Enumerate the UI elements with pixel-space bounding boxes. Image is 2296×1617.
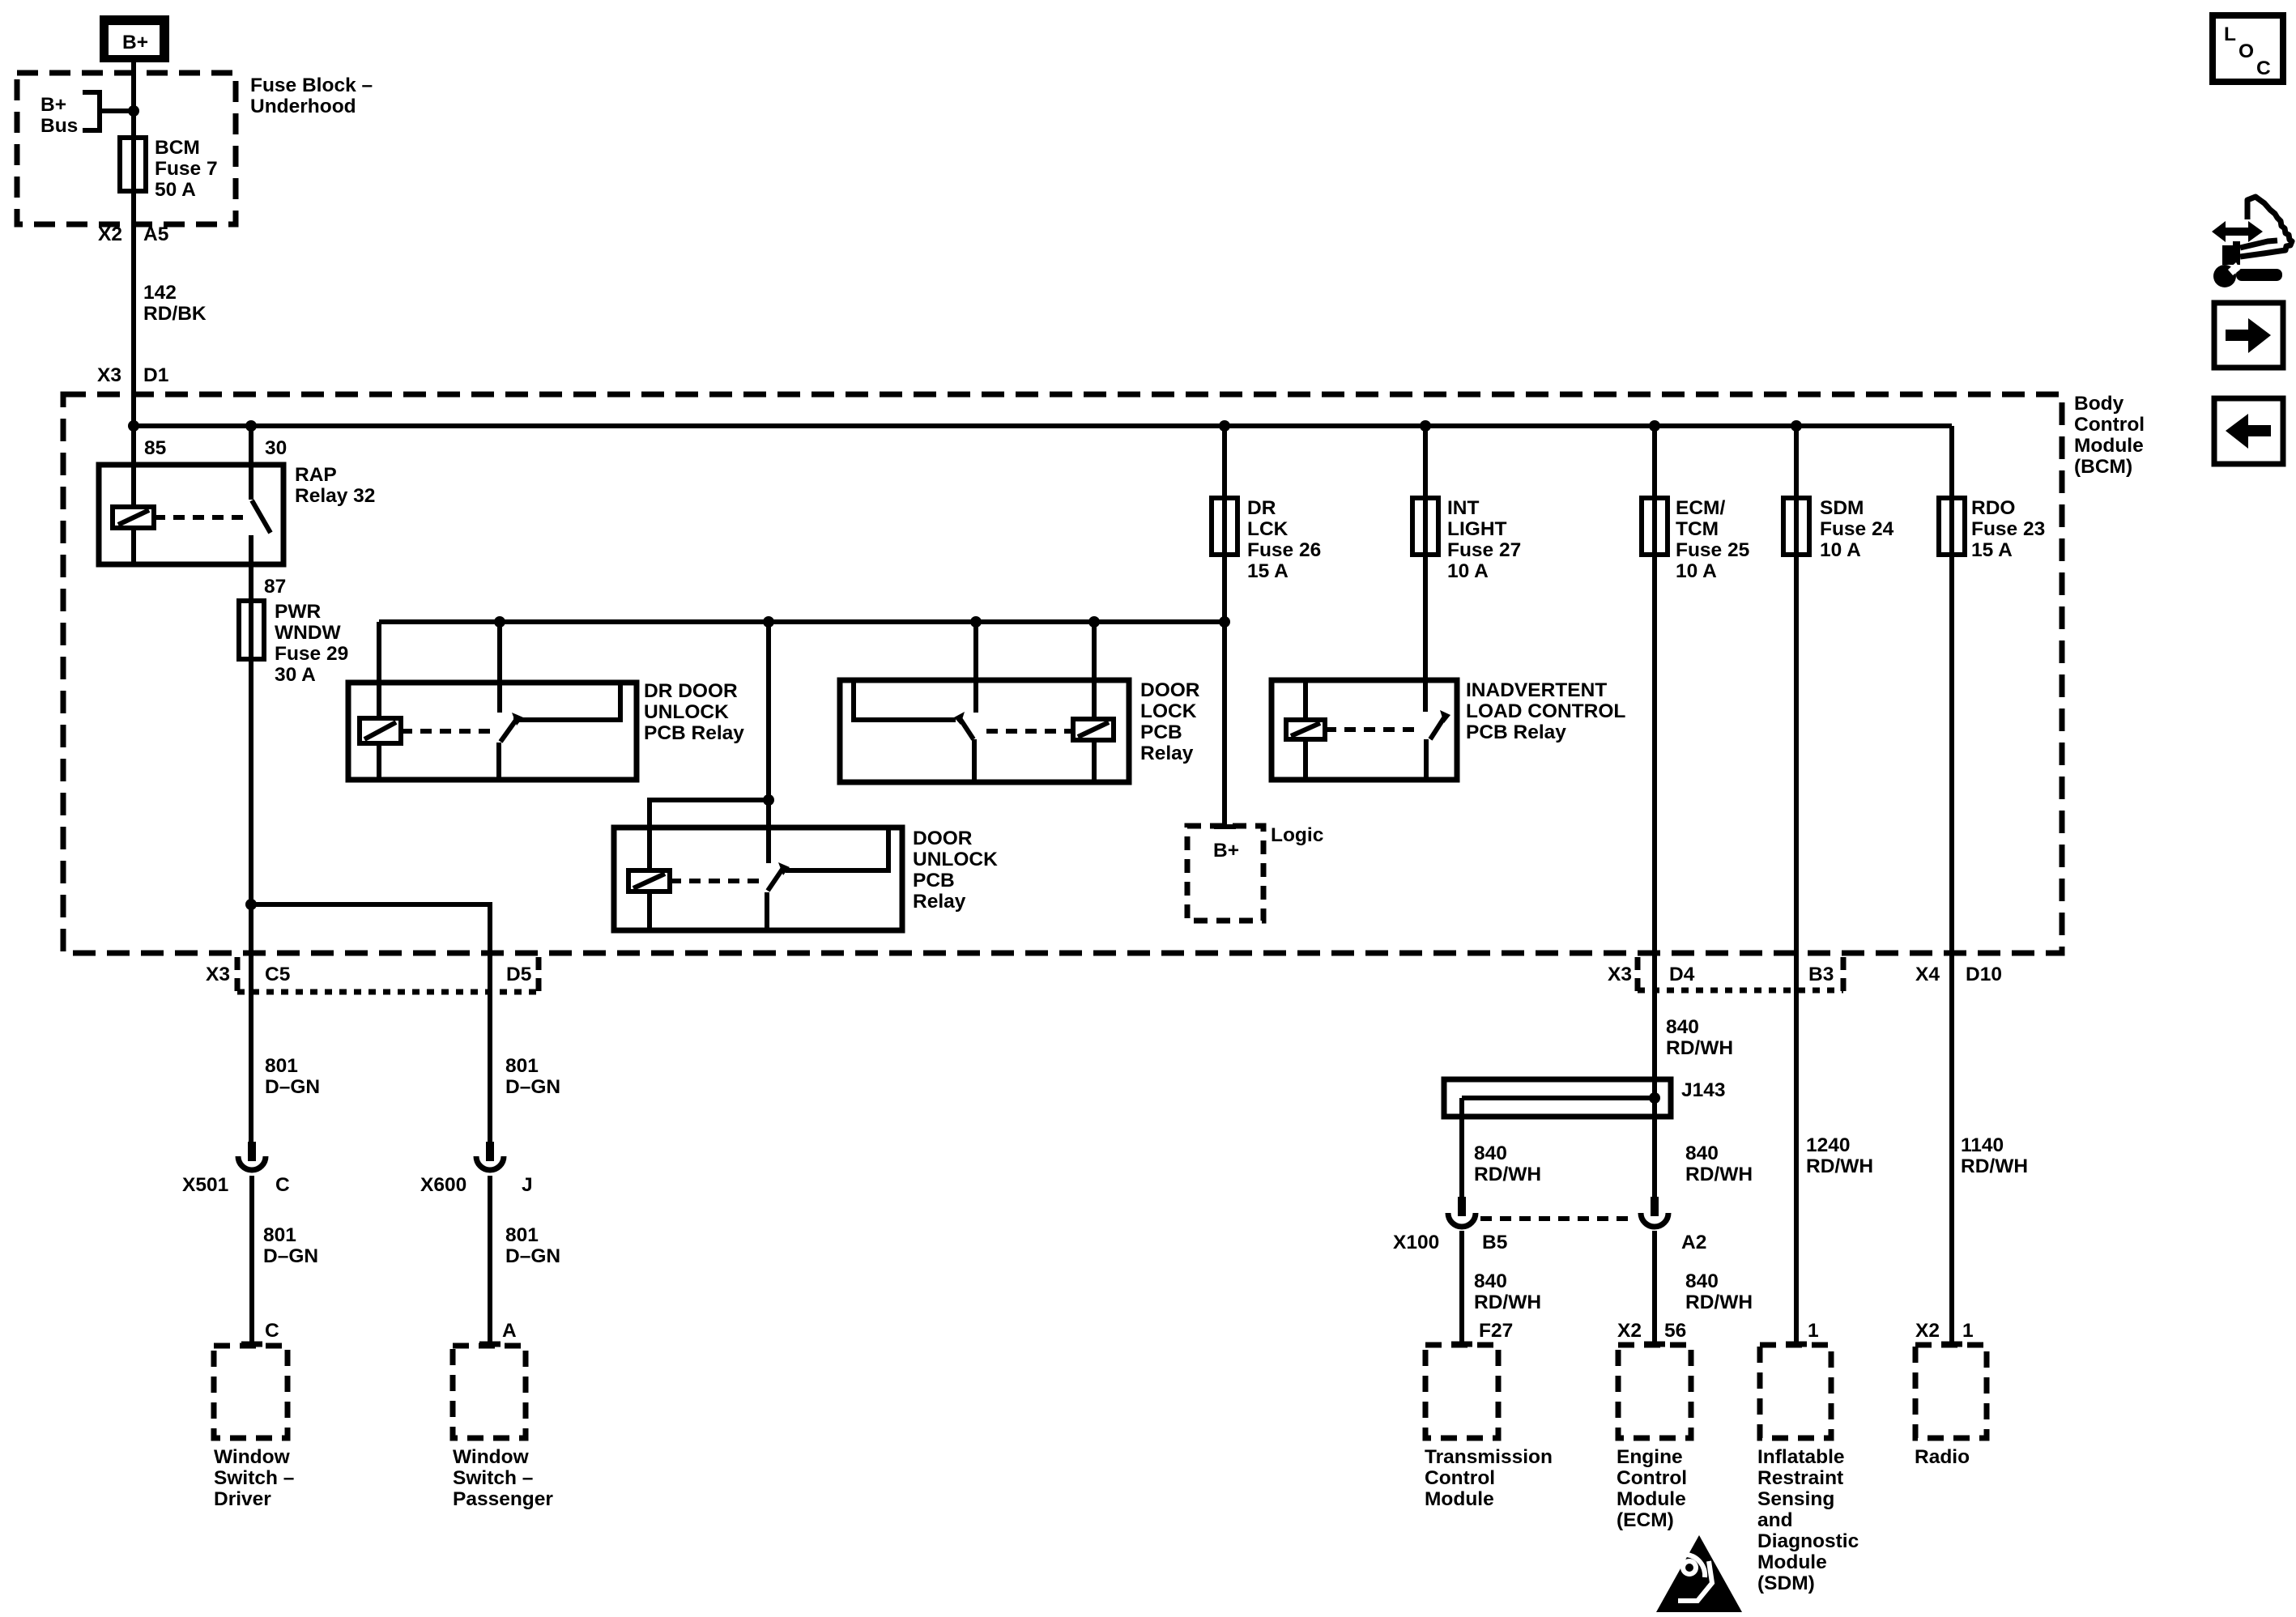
svg-text:RD/WH: RD/WH — [1474, 1291, 1541, 1313]
svg-text:Relay 32: Relay 32 — [295, 485, 375, 507]
svg-text:1140: 1140 — [1961, 1134, 2004, 1156]
svg-text:15 A: 15 A — [1247, 560, 1289, 582]
svg-text:TCM: TCM — [1676, 518, 1719, 540]
svg-text:SDM: SDM — [1820, 497, 1864, 519]
svg-text:Module: Module — [1617, 1488, 1686, 1510]
svg-text:X3: X3 — [206, 964, 230, 985]
svg-text:WNDW: WNDW — [275, 622, 342, 644]
svg-text:LCK: LCK — [1247, 518, 1289, 540]
svg-text:Body: Body — [2074, 393, 2124, 415]
svg-text:D5: D5 — [506, 964, 531, 985]
svg-text:Fuse 26: Fuse 26 — [1247, 539, 1321, 561]
svg-text:RD/WH: RD/WH — [1685, 1291, 1753, 1313]
svg-text:C: C — [275, 1174, 290, 1196]
svg-text:840: 840 — [1685, 1143, 1719, 1164]
svg-text:B+: B+ — [40, 94, 66, 116]
svg-text:Module: Module — [1425, 1488, 1494, 1510]
svg-text:Fuse 23: Fuse 23 — [1971, 518, 2045, 540]
svg-text:801: 801 — [263, 1224, 296, 1246]
svg-text:X501: X501 — [182, 1174, 228, 1196]
svg-text:C: C — [265, 1320, 279, 1342]
svg-text:Switch –: Switch – — [453, 1467, 533, 1489]
svg-text:87: 87 — [264, 576, 286, 598]
svg-text:B5: B5 — [1482, 1232, 1507, 1253]
svg-text:Driver: Driver — [214, 1488, 271, 1510]
svg-text:801: 801 — [505, 1224, 539, 1246]
svg-text:Switch –: Switch – — [214, 1467, 294, 1489]
svg-text:J: J — [522, 1174, 533, 1196]
svg-text:Logic: Logic — [1271, 824, 1323, 846]
svg-text:RD/WH: RD/WH — [1685, 1164, 1753, 1185]
svg-text:RDO: RDO — [1971, 497, 2015, 519]
svg-text:C5: C5 — [265, 964, 290, 985]
svg-text:Control: Control — [2074, 414, 2145, 436]
svg-text:UNLOCK: UNLOCK — [644, 701, 729, 723]
svg-text:D1: D1 — [143, 364, 168, 386]
svg-text:30 A: 30 A — [275, 664, 316, 686]
svg-text:A: A — [502, 1320, 517, 1342]
svg-text:B+: B+ — [1213, 840, 1239, 862]
svg-text:D–GN: D–GN — [265, 1076, 320, 1098]
svg-text:PCB: PCB — [1140, 721, 1182, 743]
svg-text:RD/WH: RD/WH — [1666, 1037, 1733, 1059]
svg-text:PCB Relay: PCB Relay — [644, 722, 744, 744]
svg-text:15 A: 15 A — [1971, 539, 2013, 561]
svg-text:Fuse 25: Fuse 25 — [1676, 539, 1749, 561]
svg-text:PCB Relay: PCB Relay — [1466, 721, 1566, 743]
svg-text:56: 56 — [1664, 1320, 1686, 1342]
svg-text:L: L — [2224, 23, 2236, 45]
svg-text:X100: X100 — [1393, 1232, 1439, 1253]
svg-text:Module: Module — [2074, 435, 2144, 457]
svg-text:ECM/: ECM/ — [1676, 497, 1725, 519]
svg-text:LOAD CONTROL: LOAD CONTROL — [1466, 700, 1625, 722]
svg-text:RD/WH: RD/WH — [1961, 1155, 2028, 1177]
svg-text:Passenger: Passenger — [453, 1488, 553, 1510]
svg-text:LIGHT: LIGHT — [1447, 518, 1507, 540]
svg-text:DR: DR — [1247, 497, 1276, 519]
svg-text:PWR: PWR — [275, 601, 321, 623]
svg-text:801: 801 — [265, 1055, 298, 1077]
svg-text:840: 840 — [1474, 1143, 1507, 1164]
svg-text:Control: Control — [1617, 1467, 1687, 1489]
svg-text:(BCM): (BCM) — [2074, 456, 2132, 478]
svg-text:INT: INT — [1447, 497, 1480, 519]
svg-text:Diagnostic: Diagnostic — [1757, 1530, 1859, 1552]
svg-text:Fuse 27: Fuse 27 — [1447, 539, 1521, 561]
svg-text:840: 840 — [1474, 1270, 1507, 1292]
svg-text:30: 30 — [265, 437, 287, 459]
svg-text:X2: X2 — [98, 223, 122, 245]
svg-text:X3: X3 — [97, 364, 121, 386]
svg-text:(SDM): (SDM) — [1757, 1572, 1815, 1594]
svg-text:Engine: Engine — [1617, 1446, 1683, 1468]
svg-text:Inflatable: Inflatable — [1757, 1446, 1845, 1468]
svg-text:Fuse 24: Fuse 24 — [1820, 518, 1894, 540]
svg-text:840: 840 — [1666, 1016, 1699, 1038]
svg-text:D10: D10 — [1966, 964, 2002, 985]
svg-text:10 A: 10 A — [1676, 560, 1717, 582]
svg-text:142: 142 — [143, 282, 177, 304]
svg-text:Transmission: Transmission — [1425, 1446, 1553, 1468]
svg-text:85: 85 — [144, 437, 166, 459]
svg-text:Window: Window — [214, 1446, 291, 1468]
svg-text:C: C — [2256, 57, 2271, 79]
svg-text:Fuse Block –: Fuse Block – — [250, 74, 373, 96]
svg-text:(ECM): (ECM) — [1617, 1509, 1674, 1531]
svg-text:D–GN: D–GN — [263, 1245, 318, 1267]
svg-text:1: 1 — [1808, 1320, 1819, 1342]
svg-text:A5: A5 — [143, 223, 168, 245]
svg-text:Relay: Relay — [913, 891, 966, 913]
svg-text:B+: B+ — [122, 32, 148, 53]
svg-text:801: 801 — [505, 1055, 539, 1077]
svg-text:RD/WH: RD/WH — [1806, 1155, 1873, 1177]
svg-text:PCB: PCB — [913, 870, 955, 891]
svg-text:D4: D4 — [1669, 964, 1695, 985]
svg-text:DR DOOR: DR DOOR — [644, 680, 738, 702]
svg-text:DOOR: DOOR — [913, 828, 973, 849]
svg-text:A2: A2 — [1681, 1232, 1706, 1253]
svg-text:1: 1 — [1962, 1320, 1974, 1342]
svg-text:Restraint: Restraint — [1757, 1467, 1843, 1489]
svg-text:Underhood: Underhood — [250, 96, 356, 117]
svg-text:10 A: 10 A — [1820, 539, 1861, 561]
svg-text:RAP: RAP — [295, 464, 337, 486]
svg-text:DOOR: DOOR — [1140, 679, 1200, 701]
svg-text:X2: X2 — [1915, 1320, 1940, 1342]
svg-text:RD/WH: RD/WH — [1474, 1164, 1541, 1185]
svg-text:D–GN: D–GN — [505, 1076, 560, 1098]
svg-text:O: O — [2238, 40, 2254, 62]
svg-text:UNLOCK: UNLOCK — [913, 849, 998, 870]
svg-text:F27: F27 — [1479, 1320, 1513, 1342]
svg-text:RD/BK: RD/BK — [143, 303, 207, 325]
svg-text:1240: 1240 — [1806, 1134, 1851, 1156]
svg-text:50 A: 50 A — [155, 179, 196, 201]
svg-text:INADVERTENT: INADVERTENT — [1466, 679, 1607, 701]
svg-text:Window: Window — [453, 1446, 530, 1468]
svg-text:X2: X2 — [1617, 1320, 1642, 1342]
svg-text:Fuse 29: Fuse 29 — [275, 643, 348, 665]
svg-text:X600: X600 — [420, 1174, 466, 1196]
svg-text:Fuse 7: Fuse 7 — [155, 158, 218, 180]
svg-text:D–GN: D–GN — [505, 1245, 560, 1267]
svg-text:LOCK: LOCK — [1140, 700, 1197, 722]
svg-text:and: and — [1757, 1509, 1793, 1531]
svg-text:X3: X3 — [1608, 964, 1632, 985]
svg-text:10 A: 10 A — [1447, 560, 1489, 582]
svg-text:840: 840 — [1685, 1270, 1719, 1292]
svg-text:Sensing: Sensing — [1757, 1488, 1834, 1510]
svg-text:B3: B3 — [1808, 964, 1834, 985]
svg-text:BCM: BCM — [155, 137, 200, 159]
svg-text:Radio: Radio — [1915, 1446, 1970, 1468]
svg-text:Module: Module — [1757, 1551, 1827, 1573]
svg-text:J143: J143 — [1681, 1079, 1726, 1101]
svg-text:X4: X4 — [1915, 964, 1940, 985]
svg-text:Relay: Relay — [1140, 743, 1194, 764]
svg-text:Bus: Bus — [40, 115, 78, 137]
svg-text:Control: Control — [1425, 1467, 1495, 1489]
